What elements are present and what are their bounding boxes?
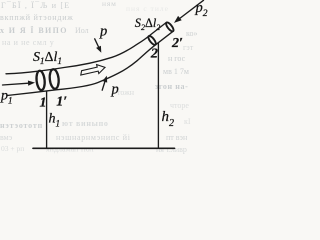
- tube upper wall: [6, 22, 166, 73]
- h2 vertical measure line: [157, 43, 159, 148]
- svg-text:н гос: н гос: [168, 54, 186, 63]
- svg-text:2: 2: [150, 47, 158, 62]
- svg-text:03 + рп: 03 + рп: [1, 144, 24, 153]
- cylinder 1 left ellipse (section 1): [36, 70, 46, 90]
- svg-text:кI: кI: [184, 117, 191, 126]
- svg-text:1′: 1′: [56, 95, 67, 110]
- cylinder 1 right ellipse (section 1'): [49, 69, 60, 89]
- svg-text:нэшнарнмэнипс йі: нэшнарнмэнипс йі: [56, 133, 131, 142]
- p1 arrow shaft: [3, 83, 29, 85]
- svg-text:тожн: тожн: [117, 88, 135, 97]
- cylinder 2 left ellipse (section 2): [147, 35, 157, 46]
- svg-text:пня с тиле: пня с тиле: [126, 4, 169, 13]
- svg-text:p: p: [99, 24, 107, 40]
- svg-text:ют виныпо: ют виныпо: [62, 119, 109, 128]
- h1 vertical measure line: [46, 91, 48, 148]
- svg-text:х И Я Ї ВИПО: х И Я Ї ВИПО: [0, 26, 68, 35]
- svg-text:2′: 2′: [171, 36, 183, 51]
- svg-text:мв 1 7м: мв 1 7м: [163, 67, 189, 76]
- baseline (reference level): [33, 147, 175, 149]
- svg-text:вкппжй йтэондиж: вкппжй йтэондиж: [0, 13, 74, 22]
- faint bleed-through text from reverse page: [0, 0, 197, 154]
- svg-text:чторе: чторе: [170, 101, 189, 110]
- svg-text:1: 1: [40, 96, 47, 111]
- p (top) arrow shaft: [95, 39, 100, 49]
- svg-text:ня т.ливр: ня т.ливр: [156, 145, 187, 154]
- p2 arrow shaft: [179, 0, 204, 19]
- p (bottom) arrowhead: [103, 76, 108, 83]
- p2 arrowhead: [174, 16, 182, 23]
- svg-text:нэтэототп: нэтэототп: [0, 121, 43, 130]
- svg-text:ко»: ко»: [186, 29, 197, 38]
- svg-text:Г¯БЇ , Ї¯Љ и [Е: Г¯БЇ , Ї¯Љ и [Е: [1, 1, 70, 10]
- svg-text:Иол: Иол: [75, 26, 89, 35]
- p1 arrowhead: [28, 81, 35, 86]
- tube lower wall: [7, 31, 173, 95]
- p (top) arrowhead: [96, 46, 101, 53]
- svg-text:згон на-: згон на-: [155, 82, 188, 91]
- svg-text:гэт: гэт: [183, 43, 194, 52]
- svg-text:p: p: [111, 82, 119, 98]
- p (bottom) arrow shaft: [102, 80, 105, 90]
- svg-text:пт вэн: пт вэн: [166, 133, 188, 142]
- svg-text:вмэ: вмэ: [0, 133, 13, 142]
- svg-text:на и не смл у: на и не смл у: [2, 38, 54, 47]
- hollow flow arrow inside tube: [81, 65, 105, 75]
- cylinder 2 right ellipse (section 2'): [165, 21, 175, 32]
- svg-text:ням: ням: [102, 0, 117, 8]
